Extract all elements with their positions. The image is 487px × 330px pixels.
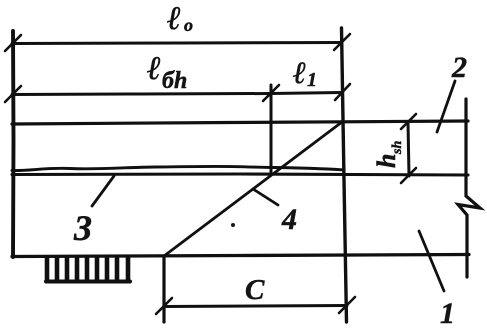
svg-text:sh: sh xyxy=(390,141,405,155)
tick right end of l_bh xyxy=(263,85,279,101)
tick left end of l0 xyxy=(5,35,21,51)
svg-text:1: 1 xyxy=(440,297,455,330)
wire shelf bottom line xyxy=(12,174,468,175)
svg-text:h: h xyxy=(372,154,401,168)
wire C left extension line xyxy=(162,256,165,322)
wire middle extension line xyxy=(270,85,273,174)
wire slab top line xyxy=(12,121,468,124)
svg-text:4: 4 xyxy=(281,203,297,236)
svg-text:1: 1 xyxy=(307,69,317,91)
wire beam bottom line xyxy=(12,255,469,257)
support hatch block xyxy=(46,258,130,282)
wire left extension line xyxy=(11,31,15,257)
tick right end of l1 xyxy=(335,84,350,100)
svg-text:C: C xyxy=(245,274,265,306)
svg-text:3: 3 xyxy=(73,208,92,248)
svg-text:ℓ: ℓ xyxy=(147,51,161,87)
leader line for 3 xyxy=(92,176,114,206)
svg-text:o: o xyxy=(184,15,193,35)
dimension line h_sh vertical xyxy=(408,122,409,176)
dimension line l_bh xyxy=(12,94,271,95)
leader line for 2 xyxy=(437,81,455,132)
svg-text:2: 2 xyxy=(451,51,467,84)
tick right end of C xyxy=(339,297,355,313)
tick bottom end of h_sh xyxy=(401,168,416,183)
leader line for 1 xyxy=(419,231,444,291)
dimension line l1 xyxy=(271,93,342,94)
tick left end of l_bh xyxy=(5,86,21,102)
diagonal crack line xyxy=(164,122,342,256)
dimension line C xyxy=(164,306,347,307)
tick top end of h_sh xyxy=(401,114,416,129)
svg-text:бh: бh xyxy=(162,68,187,94)
wire rough seam line xyxy=(12,166,342,170)
dimension line l0 xyxy=(12,43,342,44)
dot mark between 3 and 4 xyxy=(231,223,235,227)
label h_sh rotated xyxy=(372,141,405,168)
wire far right edge with break symbol xyxy=(458,99,480,277)
tick left end of C xyxy=(156,298,172,314)
wire right main vertical xyxy=(342,28,347,322)
tick right end of l0 xyxy=(334,34,350,50)
svg-text:ℓ: ℓ xyxy=(167,1,181,37)
leader line for 4 xyxy=(253,189,278,205)
svg-text:ℓ: ℓ xyxy=(293,55,306,90)
